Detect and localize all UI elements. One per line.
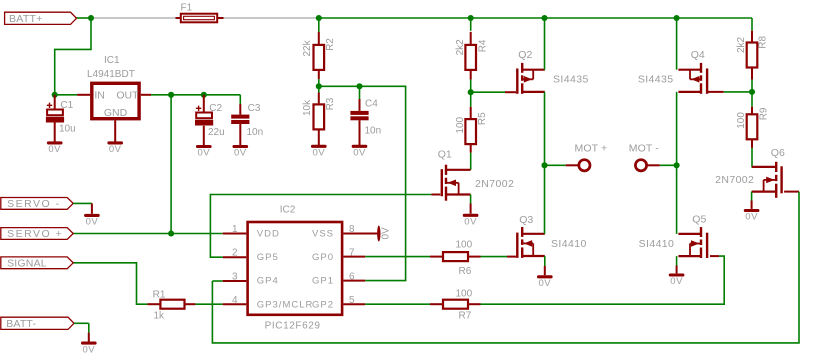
svg-text:GND: GND xyxy=(104,107,128,119)
svg-text:OUT: OUT xyxy=(116,89,139,101)
svg-text:22k: 22k xyxy=(302,39,313,56)
svg-text:SERVO -: SERVO - xyxy=(7,198,60,210)
svg-text:2N7002: 2N7002 xyxy=(715,174,754,186)
svg-text:MOT +: MOT + xyxy=(575,143,608,155)
svg-text:2k2: 2k2 xyxy=(736,36,747,53)
svg-text:0V: 0V xyxy=(86,217,99,228)
svg-text:VSS: VSS xyxy=(312,228,334,239)
svg-text:Q6: Q6 xyxy=(771,147,785,159)
svg-text:SERVO +: SERVO + xyxy=(7,228,63,240)
svg-text:6: 6 xyxy=(349,272,355,283)
svg-text:Q1: Q1 xyxy=(438,149,452,161)
svg-text:0V: 0V xyxy=(381,227,392,240)
svg-text:0V: 0V xyxy=(670,276,683,287)
svg-text:0V: 0V xyxy=(538,278,551,289)
svg-text:GP4: GP4 xyxy=(257,276,279,287)
svg-text:PIC12F629: PIC12F629 xyxy=(265,321,321,332)
svg-text:0V: 0V xyxy=(197,148,210,159)
svg-text:SI4435: SI4435 xyxy=(638,74,674,86)
svg-text:0V: 0V xyxy=(353,148,366,159)
svg-text:R2: R2 xyxy=(325,38,336,51)
svg-text:GP3/MCLR: GP3/MCLR xyxy=(257,299,314,310)
svg-text:GP5: GP5 xyxy=(257,252,279,263)
svg-text:SIGNAL: SIGNAL xyxy=(7,257,47,269)
svg-text:2: 2 xyxy=(232,248,238,259)
svg-text:10n: 10n xyxy=(247,127,264,138)
svg-text:5: 5 xyxy=(349,295,355,306)
svg-text:0V: 0V xyxy=(109,144,122,155)
svg-text:R9: R9 xyxy=(758,107,769,120)
svg-text:0V: 0V xyxy=(82,344,95,355)
svg-text:0V: 0V xyxy=(312,148,325,159)
svg-text:Q2: Q2 xyxy=(518,49,532,61)
svg-text:100: 100 xyxy=(456,289,473,300)
svg-text:100: 100 xyxy=(456,240,473,251)
svg-text:10n: 10n xyxy=(365,125,382,136)
svg-text:R5: R5 xyxy=(477,112,488,125)
svg-text:0V: 0V xyxy=(464,217,477,228)
svg-text:R8: R8 xyxy=(758,35,769,48)
svg-text:R1: R1 xyxy=(153,290,166,301)
svg-text:C4: C4 xyxy=(365,99,378,110)
svg-text:R3: R3 xyxy=(325,97,336,110)
svg-text:SI4435: SI4435 xyxy=(553,74,589,86)
svg-text:GP0: GP0 xyxy=(312,252,334,263)
svg-text:10u: 10u xyxy=(59,124,76,135)
svg-text:BATT-: BATT- xyxy=(6,318,36,330)
svg-text:7: 7 xyxy=(349,248,355,259)
svg-text:2k2: 2k2 xyxy=(455,39,466,56)
svg-text:Q3: Q3 xyxy=(519,214,533,226)
svg-text:Q5: Q5 xyxy=(692,214,706,226)
svg-text:SI4410: SI4410 xyxy=(639,238,675,250)
svg-text:1k: 1k xyxy=(154,311,166,322)
svg-text:MOT -: MOT - xyxy=(629,143,659,155)
svg-text:Q4: Q4 xyxy=(691,49,705,61)
svg-text:IC2: IC2 xyxy=(280,205,296,216)
svg-text:R7: R7 xyxy=(459,311,472,322)
svg-text:BATT+: BATT+ xyxy=(9,13,43,25)
svg-text:3: 3 xyxy=(232,272,238,283)
svg-text:0V: 0V xyxy=(745,212,758,223)
svg-text:C1: C1 xyxy=(60,100,73,111)
svg-text:GP1: GP1 xyxy=(312,276,334,287)
svg-text:C3: C3 xyxy=(248,103,261,114)
svg-text:VDD: VDD xyxy=(257,228,280,239)
svg-text:F1: F1 xyxy=(181,3,193,14)
svg-text:0V: 0V xyxy=(234,148,247,159)
svg-text:2N7002: 2N7002 xyxy=(475,178,514,190)
svg-text:10k: 10k xyxy=(302,99,313,116)
svg-text:100: 100 xyxy=(736,112,747,129)
svg-text:IN: IN xyxy=(94,89,105,101)
svg-text:R4: R4 xyxy=(477,39,488,52)
svg-text:GP2: GP2 xyxy=(312,299,334,310)
svg-text:0V: 0V xyxy=(48,144,61,155)
svg-text:22u: 22u xyxy=(208,127,225,138)
svg-text:4: 4 xyxy=(232,295,238,306)
svg-text:R6: R6 xyxy=(459,266,472,277)
svg-text:100: 100 xyxy=(455,116,466,133)
svg-text:SI4410: SI4410 xyxy=(551,238,587,250)
svg-text:C2: C2 xyxy=(209,103,222,114)
svg-text:IC1: IC1 xyxy=(104,55,120,66)
svg-text:L4941BDT: L4941BDT xyxy=(87,69,135,80)
